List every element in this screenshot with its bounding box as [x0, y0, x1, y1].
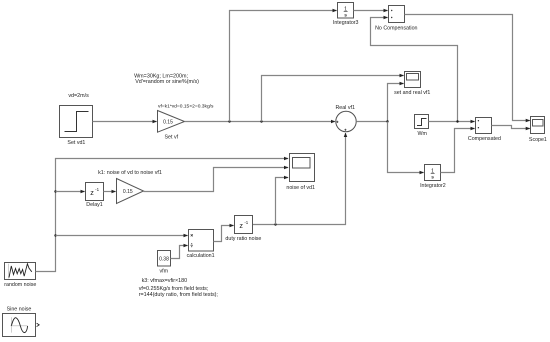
scope noise of vd1 [286, 154, 315, 191]
svg-text:k1: noise of vd to noise vf1: k1: noise of vd to noise vf1 [98, 170, 162, 176]
node junction to calculation1 [54, 234, 56, 236]
wire branch to set and real vf1 in2 [388, 84, 404, 122]
svg-text:z: z [90, 188, 94, 197]
svg-text:vf=k1*vd=0.15×2=0.3kg/s: vf=k1*vd=0.15×2=0.3kg/s [158, 103, 214, 109]
wire Integrator2 to Compensated in2 [441, 129, 475, 173]
wire No Compensation to Scope1 in1 [405, 15, 530, 121]
svg-text:vfm: vfm [160, 269, 169, 275]
wire k1 gain to noise scope in2 [144, 168, 289, 192]
svg-text:vd=2m/s: vd=2m/s [68, 93, 89, 99]
subsystem Compensated [468, 118, 501, 142]
source Sine noise [3, 306, 40, 336]
source random noise [4, 263, 36, 289]
integrator block Integrator2 [420, 165, 446, 190]
svg-text:Scope1: Scope1 [529, 137, 547, 143]
annotation vd=2m/s [68, 93, 89, 99]
svg-text:s: s [431, 176, 434, 181]
scope Scope1 [529, 117, 547, 144]
wire branch up to Integrator3 [230, 11, 337, 122]
svg-text:r=144(duty ratio, from field t: r=144(duty ratio, from field tests); [139, 292, 219, 298]
subsystem No Compensation [375, 6, 417, 32]
svg-text:-1: -1 [244, 220, 248, 225]
svg-text:random noise: random noise [4, 282, 36, 288]
constant vfm [158, 251, 171, 275]
gain k1 0.15 [117, 179, 144, 204]
svg-text:Integrator2: Integrator2 [420, 183, 446, 189]
step source Set vd1 [60, 106, 93, 147]
node junction to noise scope in3 [274, 223, 276, 225]
svg-text:Integrator3: Integrator3 [333, 20, 359, 26]
annotation Wm=30Kg [134, 73, 199, 85]
scope set and real vf1 [394, 72, 430, 97]
wire Compensated to Scope1 in2 [492, 126, 530, 129]
wire to Delay1 [56, 191, 85, 193]
annotation vf=k1*vd [158, 103, 214, 109]
svg-text:noise of vd1: noise of vd1 [286, 185, 315, 191]
svg-text:Real vf1: Real vf1 [335, 105, 354, 111]
svg-text:No Compensation: No Compensation [375, 25, 417, 31]
svg-text:-1: -1 [95, 187, 99, 192]
wire Delay1 to k1 gain [104, 191, 116, 193]
node junction to Integrator3 [228, 120, 230, 122]
node junction to set-and-real scope [260, 120, 262, 122]
annotation k3 [142, 278, 188, 284]
annotation k1 noise [98, 170, 162, 176]
wire vfm to calculation1 in2 [171, 246, 188, 259]
svg-text:0.38: 0.38 [159, 256, 169, 262]
svg-text:set and real vf1: set and real vf1 [394, 90, 430, 96]
wire branch to noise scope in3 [276, 178, 289, 225]
svg-text:s: s [344, 14, 347, 19]
svg-text:Set vf: Set vf [165, 134, 179, 140]
svg-text:Vd'=random or sine%(m/s): Vd'=random or sine%(m/s) [135, 79, 199, 85]
unit delay duty ratio noise [225, 216, 261, 243]
wire branch down to Integrator2 [388, 122, 424, 173]
step source Wm [415, 115, 429, 138]
node junction Wm feedback [456, 120, 458, 122]
node output junction [386, 120, 388, 122]
wire Real vf1 output to vertical bus [356, 121, 387, 123]
wire branch up to set and real vf1 in1 [262, 76, 404, 122]
svg-text:duty ratio noise: duty ratio noise [225, 236, 261, 242]
svg-text:Delay1: Delay1 [86, 202, 103, 208]
wire Set vf to Real vf1 [185, 121, 335, 123]
wire feedback from Wm node to No Compensation in2 [371, 18, 458, 122]
svg-text:0.15: 0.15 [163, 120, 173, 126]
product calculation1 [187, 230, 215, 260]
node junction to Delay1 [54, 190, 56, 192]
svg-text:z: z [239, 221, 243, 230]
svg-text:Compensated: Compensated [468, 136, 501, 142]
annotation field tests [139, 286, 219, 298]
svg-text:Sine noise: Sine noise [7, 306, 32, 312]
unit delay Delay1 [86, 183, 104, 209]
wire Set vd1 to Set vf [93, 121, 157, 123]
sum block Real vf1 [335, 105, 356, 132]
svg-text:Set vd1: Set vd1 [67, 140, 85, 146]
wire duty ratio noise to Real vf1 [253, 133, 346, 225]
wire Integrator3 to No Compensation [354, 10, 388, 12]
gain Set vf [158, 111, 185, 141]
integrator block Integrator3 [333, 3, 359, 26]
wire calculation1 to duty ratio noise [214, 226, 234, 242]
svg-text:0.15: 0.15 [123, 189, 133, 195]
svg-text:Wm: Wm [417, 131, 427, 137]
wire to calculation1 in1 [56, 235, 188, 237]
wire random noise riser [36, 159, 289, 272]
svg-text:k3: vfmax=vfir×180: k3: vfmax=vfir×180 [142, 278, 188, 284]
svg-text:calculation1: calculation1 [187, 253, 215, 259]
wire Wm to Compensated in1 [429, 121, 475, 123]
